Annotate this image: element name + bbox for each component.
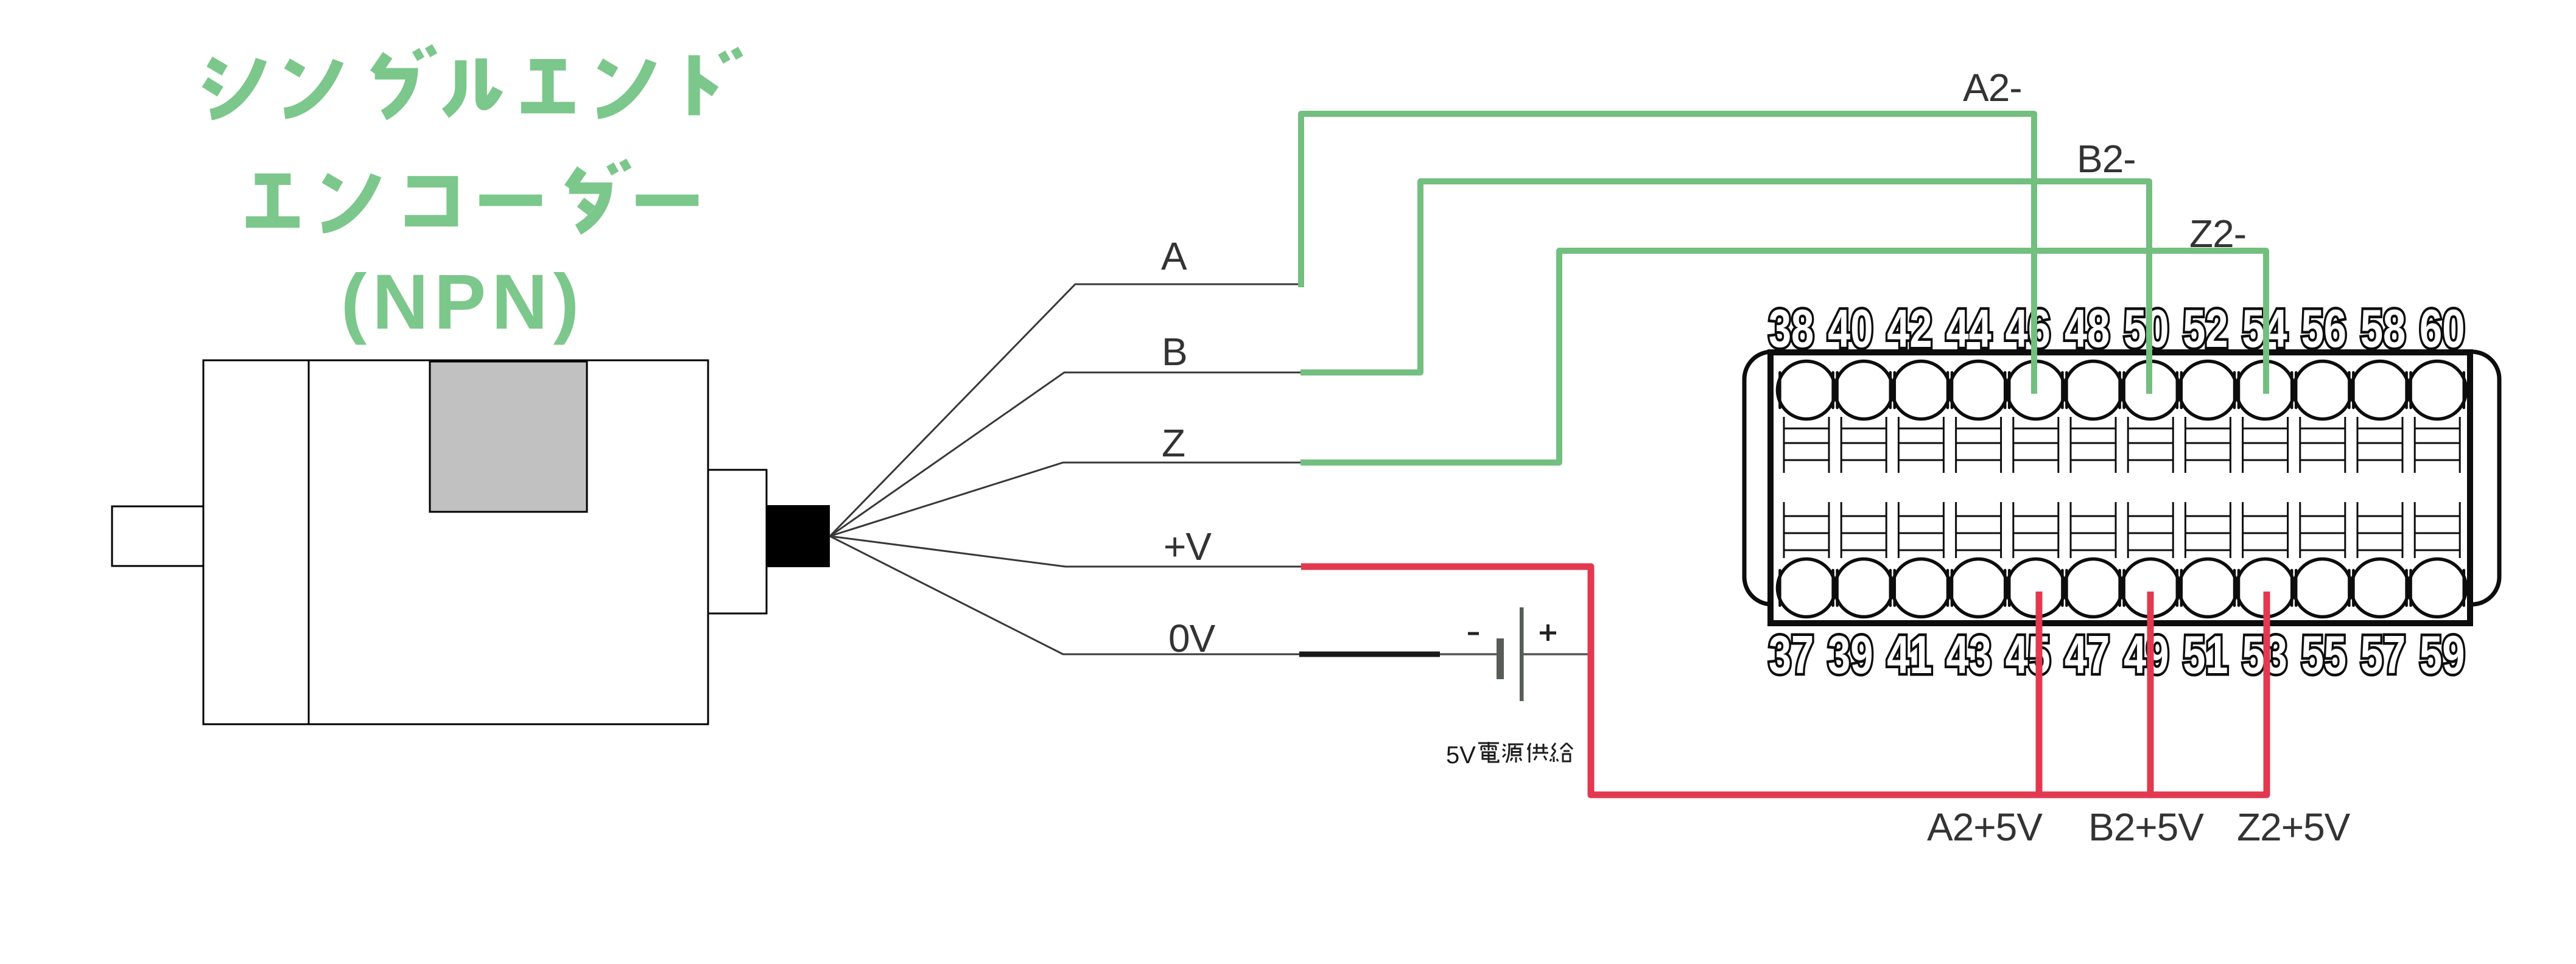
svg-text:60: 60 <box>2420 298 2465 358</box>
svg-text:A: A <box>1161 234 1187 278</box>
red wire +V to battery and pins <box>1301 567 2267 795</box>
wire fan +V <box>830 536 1301 567</box>
svg-text:55: 55 <box>2301 624 2346 685</box>
svg-text:38: 38 <box>1769 298 1814 358</box>
svg-text:41: 41 <box>1887 624 1932 685</box>
svg-text:5V: 5V <box>1446 742 1476 769</box>
motor gray block <box>430 361 587 512</box>
svg-text:A2-: A2- <box>1963 66 2022 110</box>
wire fan B <box>830 372 1300 536</box>
top pin numbers 38-60 <box>1769 298 2465 358</box>
svg-text:59: 59 <box>2420 624 2465 685</box>
svg-text:B2+5V: B2+5V <box>2088 805 2204 849</box>
battery lead right <box>1523 653 1591 655</box>
bottom pin numbers 37-59 <box>1769 624 2465 685</box>
svg-text:45: 45 <box>2006 624 2051 685</box>
0V thick segment <box>1299 652 1440 657</box>
svg-text:48: 48 <box>2065 298 2110 358</box>
svg-text:Z2-: Z2- <box>2189 212 2246 256</box>
battery negative plate <box>1497 638 1504 679</box>
svg-text:Z2+5V: Z2+5V <box>2237 805 2351 849</box>
svg-text:43: 43 <box>1946 624 1991 685</box>
battery plus sign <box>1540 632 1556 635</box>
svg-text:46: 46 <box>2006 298 2051 358</box>
wire fan Z <box>830 463 1300 536</box>
battery minus sign <box>1468 632 1479 635</box>
pin separator bars <box>1780 372 2463 606</box>
svg-text:56: 56 <box>2301 298 2346 358</box>
top pin circles (38..60) <box>1778 361 2466 419</box>
svg-text:58: 58 <box>2360 298 2406 358</box>
green wire A to pin 46 (A2-) <box>1301 114 2034 394</box>
svg-text:49: 49 <box>2124 624 2169 685</box>
svg-text:44: 44 <box>1946 298 1992 358</box>
battery lead left <box>1440 653 1497 655</box>
svg-text:B: B <box>1162 330 1187 374</box>
clamp ladders <box>1784 417 2460 558</box>
motor body divider <box>308 360 310 724</box>
wire fan 0V <box>830 536 1300 654</box>
red riser pin 49 <box>2147 592 2154 795</box>
svg-text:(NPN): (NPN) <box>341 259 585 346</box>
wire fan A <box>830 284 1301 536</box>
svg-text:47: 47 <box>2065 624 2110 685</box>
svg-text:37: 37 <box>1769 624 1814 685</box>
svg-text:Z: Z <box>1162 421 1185 465</box>
svg-text:0V: 0V <box>1168 616 1216 660</box>
red riser pin 45 <box>2036 592 2043 795</box>
motor right flange <box>708 470 767 613</box>
terminal block outer rounded shell <box>1744 352 2499 604</box>
green wire B to pin 50 (B2-) <box>1300 181 2149 394</box>
terminal block main body <box>1771 352 2470 623</box>
svg-text:52: 52 <box>2183 298 2228 358</box>
svg-text:51: 51 <box>2183 624 2228 685</box>
svg-text:+V: +V <box>1163 525 1212 568</box>
battery positive plate <box>1520 607 1524 701</box>
title line 2: エンコーダー <box>246 161 698 229</box>
cable connector (black) <box>767 505 830 567</box>
svg-text:39: 39 <box>1828 624 1873 685</box>
svg-text:B2-: B2- <box>2077 137 2136 181</box>
svg-text:A2+5V: A2+5V <box>1927 805 2043 849</box>
svg-text:57: 57 <box>2360 624 2406 685</box>
motor shaft <box>112 506 203 566</box>
svg-text:42: 42 <box>1887 298 1932 358</box>
green wire Z to pin 54 (Z2-) <box>1300 251 2266 463</box>
bottom pin circles (37..59) <box>1778 559 2466 617</box>
svg-text:40: 40 <box>1828 298 1873 358</box>
title line 1: シングルエンド <box>205 46 740 115</box>
encoder motor body <box>203 360 708 724</box>
